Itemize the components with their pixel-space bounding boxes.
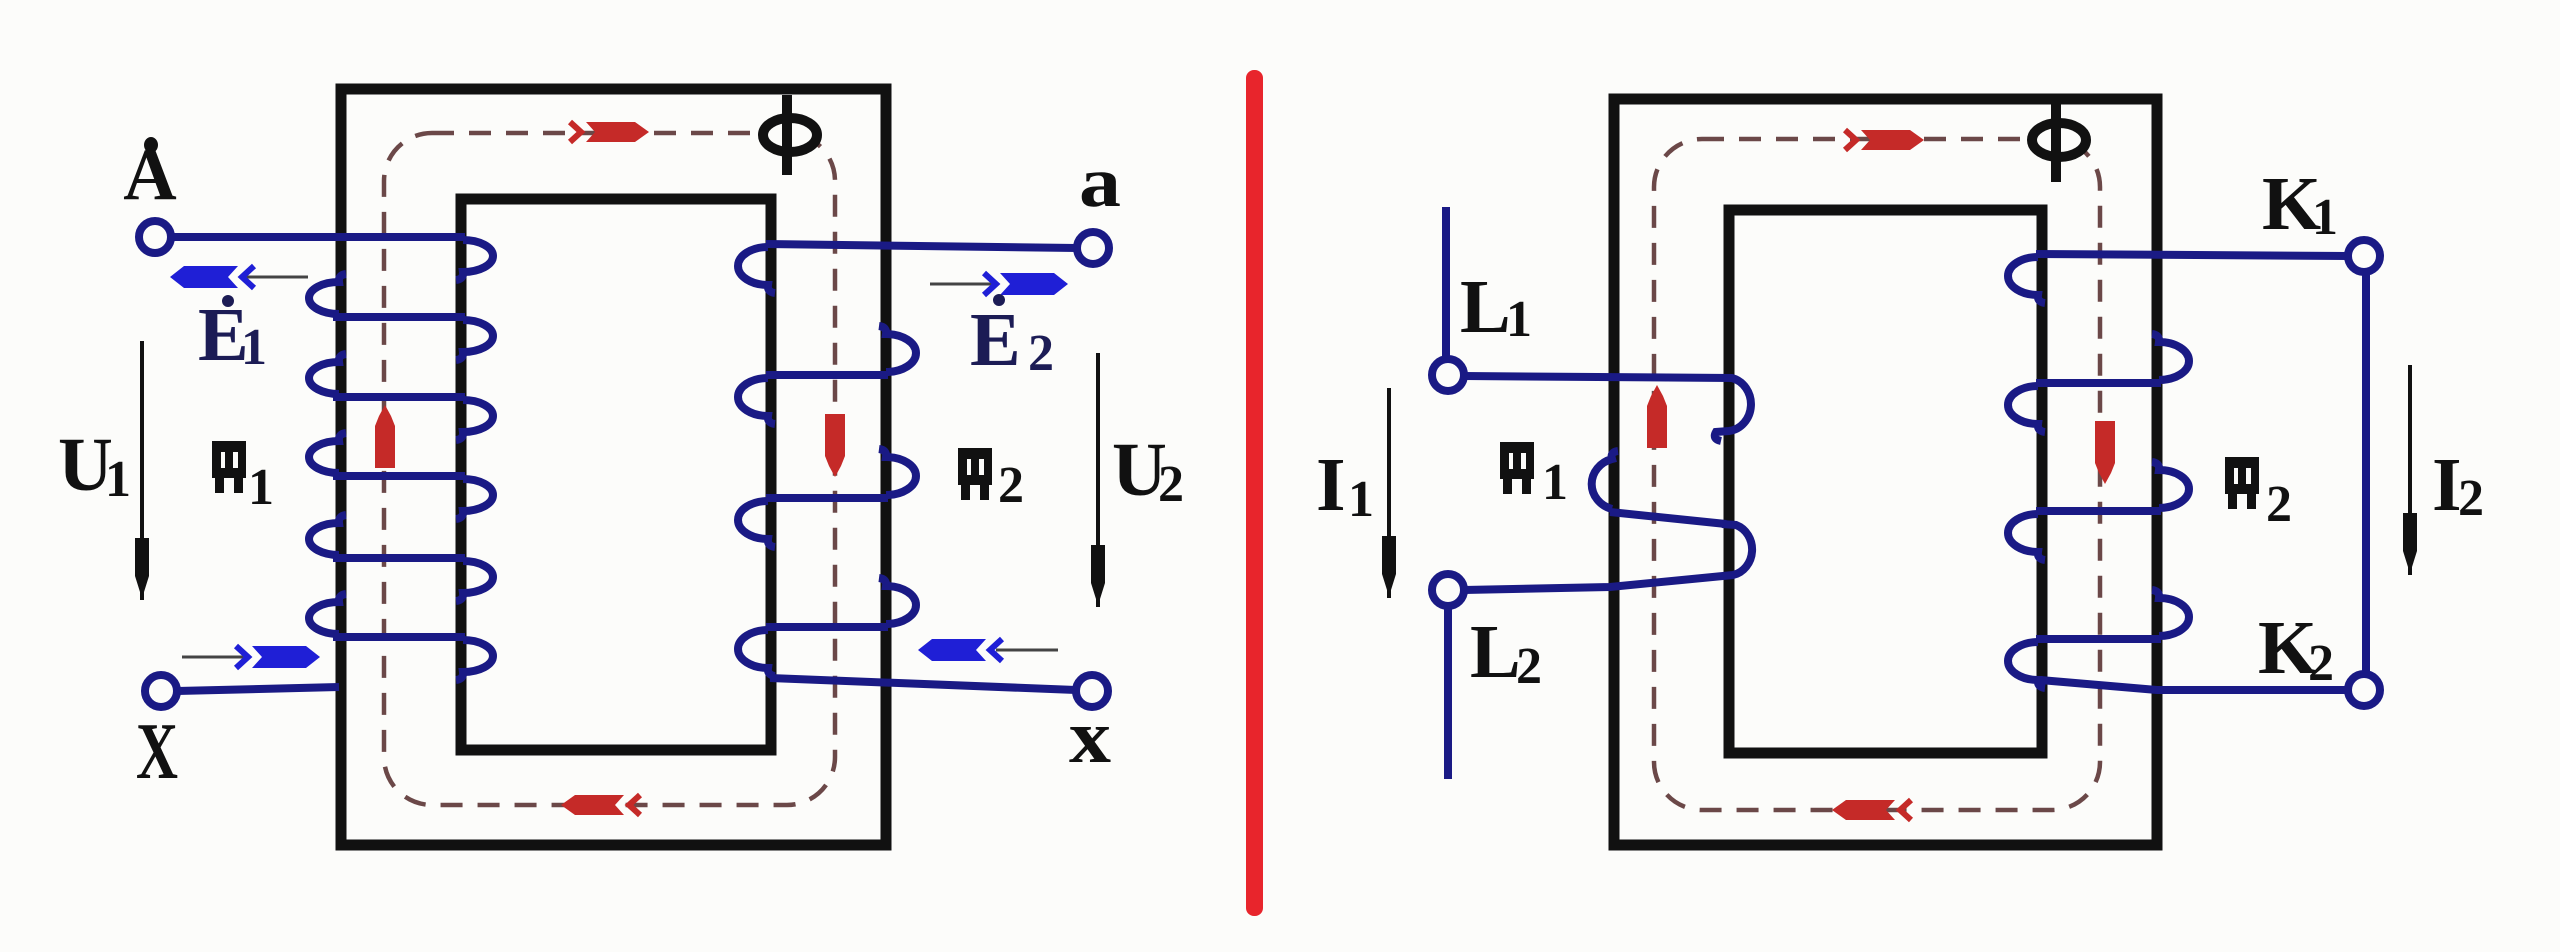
lead wire above L1 xyxy=(1442,207,1450,360)
svg-text:L: L xyxy=(1470,610,1521,694)
label W1 (left transformer) xyxy=(212,441,274,516)
terminal L1 xyxy=(1432,359,1464,391)
svg-text:2: 2 xyxy=(1028,325,1054,382)
wire A to winding xyxy=(171,233,465,241)
left-side bumps (curl up) xyxy=(309,274,346,314)
EMF arrow E2 (points right) xyxy=(930,273,1068,295)
terminal x xyxy=(1076,675,1108,707)
voltage arrow U2 (down) xyxy=(1091,353,1105,607)
svg-text:1: 1 xyxy=(1506,291,1532,348)
svg-text:I: I xyxy=(1316,443,1346,527)
svg-text:2: 2 xyxy=(998,457,1024,514)
flux arrow bottom (left core) xyxy=(561,795,640,815)
svg-text:2: 2 xyxy=(2308,635,2334,692)
lead wire below L2 xyxy=(1444,606,1452,779)
left-side bumps (curl down) xyxy=(2008,257,2045,303)
flux arrow right leg (right core) xyxy=(2095,421,2115,484)
left-side bumps (curl down) xyxy=(738,247,775,293)
label E2 xyxy=(970,294,1054,382)
label K1 xyxy=(2262,162,2338,246)
wire winding to K1 xyxy=(2036,254,2348,256)
terminal X xyxy=(145,675,177,707)
label E1 xyxy=(198,293,267,377)
flux path (right core, dashed loop) xyxy=(1654,139,2100,810)
current arrow out of winding near x (points left) xyxy=(918,639,1058,661)
label I2 xyxy=(2432,443,2484,527)
flux path (left core, dashed loop) xyxy=(384,133,835,805)
svg-text:2: 2 xyxy=(2458,470,2484,527)
left-side bump (curl up) xyxy=(1592,451,1618,509)
wire L1 to winding + first loop (curl down into window) xyxy=(1464,376,1751,441)
svg-text:a: a xyxy=(1079,142,1121,222)
current arrow into winding near X (points right) xyxy=(182,646,320,668)
wire winding to K2 xyxy=(2040,680,2348,690)
voltage arrow U1 (down) xyxy=(135,341,149,600)
divider line xyxy=(1246,70,1263,916)
label L1 xyxy=(1460,265,1532,349)
svg-text:2: 2 xyxy=(1516,638,1542,695)
label L2 xyxy=(1470,610,1542,695)
svg-text:1: 1 xyxy=(2312,189,2338,246)
secondary winding W2 (right transformer) xyxy=(2008,254,2348,690)
terminal K2 xyxy=(2348,674,2380,706)
primary winding W1 (left transformer) xyxy=(171,237,493,691)
label W1 (right transformer) xyxy=(1500,442,1568,511)
right-side bumps (curl up) xyxy=(2152,334,2189,380)
svg-text:1: 1 xyxy=(105,451,131,508)
current arrow I1 (down) xyxy=(1382,388,1396,598)
current arrow I2 (down) xyxy=(2403,365,2417,575)
wire winding to X xyxy=(177,687,339,691)
core (left transformer) xyxy=(341,89,886,845)
second loop (curl down into window) + wire to L2 xyxy=(1464,524,1752,590)
right-side bumps (curl down) xyxy=(456,240,493,280)
svg-text:L: L xyxy=(1460,265,1511,349)
label U1 xyxy=(58,423,131,508)
terminal L2 xyxy=(1432,574,1464,606)
svg-text:E: E xyxy=(970,298,1021,382)
svg-text:X: X xyxy=(136,708,178,796)
flux arrow left leg (left core) xyxy=(375,405,395,468)
secondary winding W2 (left transformer) xyxy=(738,244,1077,690)
label A (with dot) xyxy=(123,134,176,216)
flux arrow top (right core) xyxy=(1845,130,1924,150)
label I1 xyxy=(1316,443,1374,528)
label K2 xyxy=(2258,606,2334,692)
svg-text:1: 1 xyxy=(1542,454,1568,511)
primary winding W1 (right transformer) xyxy=(1464,376,1752,590)
right-side bumps (curl up) xyxy=(879,326,916,372)
svg-text:1: 1 xyxy=(241,319,267,376)
svg-text:1: 1 xyxy=(248,459,274,516)
label Φ (left) xyxy=(763,95,817,175)
wire winding to x xyxy=(770,678,1076,690)
flux arrow right leg (left core) xyxy=(825,414,845,477)
svg-text:2: 2 xyxy=(1158,456,1184,513)
burden wire K1-K2 xyxy=(2362,272,2370,674)
wire winding to a xyxy=(766,244,1077,248)
crossing wire xyxy=(1610,512,1726,524)
label Φ (right) xyxy=(2032,102,2086,182)
label W2 (left transformer) xyxy=(958,448,1024,514)
terminal K1 xyxy=(2348,240,2380,272)
svg-text:2: 2 xyxy=(2266,476,2292,533)
svg-text:x: x xyxy=(1069,695,1111,779)
EMF arrow E1 (points left) xyxy=(170,266,308,288)
svg-text:A: A xyxy=(123,134,176,216)
core (right transformer) xyxy=(1614,99,2157,845)
svg-text:1: 1 xyxy=(1348,471,1374,528)
winding crossing wires xyxy=(333,313,465,321)
terminal A xyxy=(139,221,171,253)
winding crossing wires xyxy=(2036,379,2161,387)
terminal a xyxy=(1077,232,1109,264)
flux arrow top (left core) xyxy=(570,122,649,142)
label U2 xyxy=(1112,428,1184,513)
flux arrow bottom (right core) xyxy=(1832,800,1911,820)
flux arrow left leg (right core) xyxy=(1647,385,1667,448)
winding crossing wires xyxy=(766,371,888,379)
label W2 (right transformer) xyxy=(2225,457,2292,533)
